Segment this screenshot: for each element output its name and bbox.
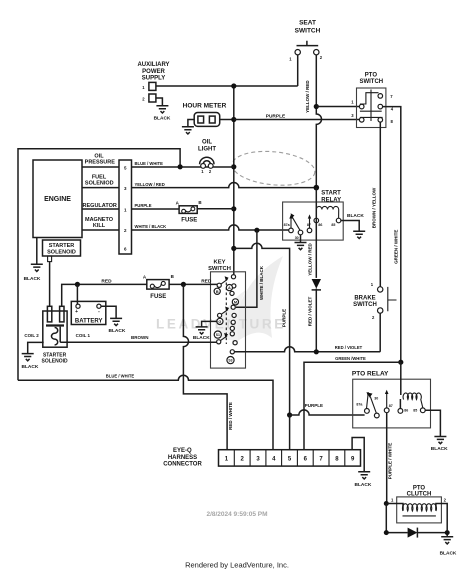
- wire red/white to harness pin1: [183, 284, 227, 449]
- oil light: [198, 140, 216, 165]
- start relay U1: [283, 191, 344, 241]
- svg-text:BLACK: BLACK: [154, 116, 171, 122]
- svg-text:RED / WHITE: RED / WHITE: [228, 402, 233, 430]
- svg-text:EYE-Q: EYE-Q: [173, 448, 192, 454]
- brake switch: [353, 282, 396, 320]
- svg-text:BATTERY: BATTERY: [75, 318, 103, 324]
- wire row3: [82, 187, 119, 189]
- node yellow/red row / relay: [314, 185, 320, 191]
- wire row2: [82, 229, 119, 231]
- svg-text:PURPLE: PURPLE: [305, 403, 323, 408]
- svg-text:HOUR METER: HOUR METER: [183, 102, 227, 109]
- wire aux pin1 feed: [156, 85, 298, 87]
- wire yellow/red from seat pin2: [316, 55, 321, 188]
- svg-text:86: 86: [404, 409, 408, 413]
- svg-text:SOLENOID: SOLENOID: [42, 359, 69, 365]
- purple bus vertical: [233, 86, 235, 274]
- wire left post to starter solenoid stub: [49, 262, 51, 307]
- svg-text:RED: RED: [101, 279, 112, 285]
- svg-text:REGULATOR: REGULATOR: [83, 203, 117, 209]
- battery: [71, 301, 106, 324]
- wire coil2 to ground: [28, 342, 44, 353]
- svg-text:BLACK: BLACK: [347, 213, 364, 219]
- starter solenoid (engine): [43, 240, 81, 256]
- svg-text:GREEN / WHITE: GREEN / WHITE: [394, 230, 399, 264]
- svg-text:BLACK: BLACK: [431, 446, 448, 452]
- wire purple/white from relay 87: [386, 413, 388, 504]
- svg-text:SOLENOID: SOLENOID: [47, 250, 76, 256]
- wire PTO relay 85 to ground: [425, 410, 440, 436]
- diode D1: [312, 279, 321, 289]
- wire brown/yellow from PTO pin8: [379, 122, 381, 287]
- svg-text:PURPLE: PURPLE: [135, 203, 152, 208]
- svg-text:HARNESS: HARNESS: [168, 455, 197, 461]
- svg-text:PTO RELAY: PTO RELAY: [352, 371, 389, 378]
- svg-text:SWITCH: SWITCH: [353, 302, 377, 308]
- node seat2/PTO1: [314, 104, 319, 109]
- wire seat pin1 to aux feed: [297, 55, 299, 86]
- engine: [33, 160, 82, 238]
- svg-text:BLACK: BLACK: [109, 328, 126, 334]
- blue/white top rail: [18, 149, 180, 380]
- svg-text:PURPLE: PURPLE: [266, 113, 286, 119]
- svg-text:BRAKE: BRAKE: [354, 296, 375, 302]
- svg-text:SWITCH: SWITCH: [359, 79, 383, 85]
- svg-text:POWER: POWER: [142, 69, 165, 75]
- node aux/bus: [231, 83, 236, 88]
- svg-text:BLACK: BLACK: [22, 364, 39, 370]
- contacts: [291, 219, 310, 229]
- node clutch feed: [384, 501, 389, 506]
- svg-text:BLACK: BLACK: [440, 550, 457, 556]
- svg-text:SWITCH: SWITCH: [295, 28, 321, 35]
- svg-text:BLACK: BLACK: [193, 335, 210, 341]
- wire green/white into relay coil: [399, 362, 401, 408]
- fuse F2: [143, 274, 175, 300]
- node red/violet: [314, 349, 319, 354]
- svg-text:ENGINE: ENGINE: [44, 196, 71, 203]
- svg-text:30: 30: [295, 236, 299, 240]
- wire purple down to pin5: [289, 415, 291, 450]
- svg-text:WHITE / BLACK: WHITE / BLACK: [259, 265, 264, 300]
- blue/white engine row: [132, 166, 234, 168]
- lettered terminals: [214, 288, 220, 294]
- wire battery plus: [76, 284, 78, 304]
- node purple branch: [231, 246, 236, 251]
- white/black row: [132, 225, 289, 230]
- svg-text:SEAT: SEAT: [299, 20, 316, 27]
- svg-text:87a: 87a: [284, 223, 291, 227]
- svg-text:LIGHT: LIGHT: [198, 147, 216, 153]
- svg-text:BLUE / WHITE: BLUE / WHITE: [106, 373, 135, 378]
- svg-text:PTO: PTO: [413, 485, 426, 491]
- wire aux pin2 to ground: [156, 98, 163, 106]
- dashed ellipse annotation: [231, 148, 317, 189]
- svg-text:KILL: KILL: [93, 223, 106, 229]
- wire clutch bottom loop: [386, 504, 447, 537]
- watermark logo flame: [232, 256, 283, 345]
- wire purple branch: [234, 243, 290, 415]
- svg-text:PRESSURE: PRESSURE: [85, 160, 116, 166]
- auxiliary power supply: [137, 62, 169, 102]
- wire green/white from PTO pin4: [383, 107, 401, 363]
- svg-text:STARTER: STARTER: [49, 243, 75, 249]
- svg-text:RED / VIOLET: RED / VIOLET: [307, 297, 312, 327]
- svg-text:WHITE / BLACK: WHITE / BLACK: [135, 224, 167, 229]
- PTO switch: [351, 72, 393, 127]
- svg-text:85: 85: [331, 223, 335, 227]
- svg-text:PTO: PTO: [365, 72, 378, 78]
- wire key G to ground: [202, 321, 218, 327]
- red feed row: [62, 284, 218, 306]
- svg-text:YELLOW / RED: YELLOW / RED: [135, 182, 165, 187]
- svg-text:B: B: [216, 290, 219, 294]
- wire row5: [82, 166, 119, 168]
- svg-text:87a: 87a: [356, 402, 363, 406]
- svg-text:85: 85: [413, 409, 417, 413]
- node battery plus: [75, 282, 80, 287]
- wire purple row to PTO switch pin3: [234, 119, 359, 121]
- node oil-light row: [231, 164, 236, 169]
- wire battery minus to ground: [101, 306, 116, 318]
- engine connector strip: [119, 160, 132, 254]
- svg-text:FUSE: FUSE: [181, 218, 197, 224]
- seat switch: [289, 20, 323, 62]
- eye-q harness connector: [163, 448, 360, 467]
- contact arms: [221, 279, 228, 284]
- node hour-meter/purple: [231, 117, 236, 122]
- wire red/violet down: [315, 289, 317, 352]
- fuse F1: [132, 200, 234, 224]
- svg-text:BLUE / WHITE: BLUE / WHITE: [135, 161, 164, 166]
- svg-text:A: A: [228, 286, 231, 290]
- diode D2: [408, 528, 418, 538]
- svg-text:COIL 2: COIL 2: [24, 333, 39, 338]
- svg-text:PURPLE: PURPLE: [282, 309, 287, 327]
- svg-text:+: +: [75, 309, 78, 315]
- svg-text:PURPLE / WHITE: PURPLE / WHITE: [388, 443, 393, 480]
- PTO clutch: [386, 485, 447, 530]
- svg-text:M: M: [234, 300, 237, 304]
- wire purple to PTO relay: [290, 410, 365, 415]
- svg-text:86: 86: [318, 223, 322, 227]
- wire relay 85 to ground: [341, 221, 359, 232]
- ground engine BLACK: [36, 238, 38, 265]
- blue/white bottom rail: [18, 375, 273, 450]
- node white/black: [254, 228, 259, 233]
- svg-text:87: 87: [389, 404, 393, 408]
- ground hour meter: [182, 127, 194, 134]
- key switch S2: [208, 260, 245, 368]
- svg-text:SWITCH: SWITCH: [208, 266, 231, 272]
- wire to PTO switch pin1: [316, 106, 359, 108]
- wire white/black vertical to key M: [236, 230, 257, 307]
- wire red/violet horizontal: [234, 347, 380, 352]
- ground aux BLACK: [156, 106, 168, 113]
- svg-text:CONNECTOR: CONNECTOR: [163, 462, 202, 468]
- svg-text:SOLENIOD: SOLENIOD: [85, 181, 114, 187]
- svg-text:OIL: OIL: [202, 140, 212, 146]
- wire green/white to harness pin6: [304, 362, 401, 450]
- svg-text:AUXILIARY: AUXILIARY: [137, 62, 169, 68]
- svg-text:BLACK: BLACK: [355, 482, 372, 488]
- svg-text:FUSE: FUSE: [150, 294, 166, 300]
- svg-text:Rendered by LeadVenture, Inc.: Rendered by LeadVenture, Inc.: [185, 561, 289, 570]
- svg-text:2/8/2024 9:59:05 PM: 2/8/2024 9:59:05 PM: [206, 511, 267, 518]
- wire yellow/red through relay: [315, 188, 317, 278]
- wire row1: [82, 208, 119, 210]
- starter solenoid assembly: [43, 306, 67, 347]
- node blue/white rail: [178, 164, 183, 169]
- svg-text:COIL 1: COIL 1: [76, 333, 91, 338]
- svg-text:KEY: KEY: [214, 260, 226, 266]
- svg-text:STARTER: STARTER: [43, 353, 67, 359]
- node fuse B: [231, 206, 236, 211]
- terminals: [231, 275, 235, 279]
- coil: [316, 206, 338, 218]
- svg-text:30: 30: [374, 397, 378, 401]
- svg-text:S3: S3: [228, 358, 232, 362]
- yellow/red row to relay line: [132, 183, 317, 188]
- ground relay 30: [300, 235, 302, 243]
- wire brake pin2 to red/violet: [379, 313, 381, 352]
- node green/white: [398, 360, 403, 365]
- node purple/pin5: [287, 412, 292, 417]
- svg-text:BROWN / YELLOW: BROWN / YELLOW: [372, 187, 377, 228]
- svg-text:GREEN /WHITE: GREEN /WHITE: [335, 356, 366, 361]
- svg-text:S1: S1: [216, 333, 220, 337]
- PTO relay K2: [352, 371, 431, 428]
- svg-text:87: 87: [307, 223, 311, 227]
- brown row: [60, 327, 217, 343]
- svg-text:YELLOW / RED: YELLOW / RED: [305, 80, 310, 113]
- node red/white branch: [181, 282, 186, 287]
- svg-text:BROWN: BROWN: [131, 335, 149, 340]
- svg-text:SUPPLY: SUPPLY: [142, 76, 165, 82]
- contacts: [367, 392, 387, 408]
- svg-text:BLACK: BLACK: [24, 276, 41, 282]
- svg-text:G: G: [218, 320, 221, 324]
- svg-text:RED: RED: [201, 279, 212, 285]
- wire pin9 to ground: [352, 438, 364, 472]
- coil: [403, 393, 423, 408]
- hour meter: [183, 102, 234, 127]
- svg-text:RED / VIOLET: RED / VIOLET: [335, 345, 363, 350]
- svg-text:START: START: [321, 191, 341, 197]
- svg-text:YELLOW / RED: YELLOW / RED: [307, 243, 312, 276]
